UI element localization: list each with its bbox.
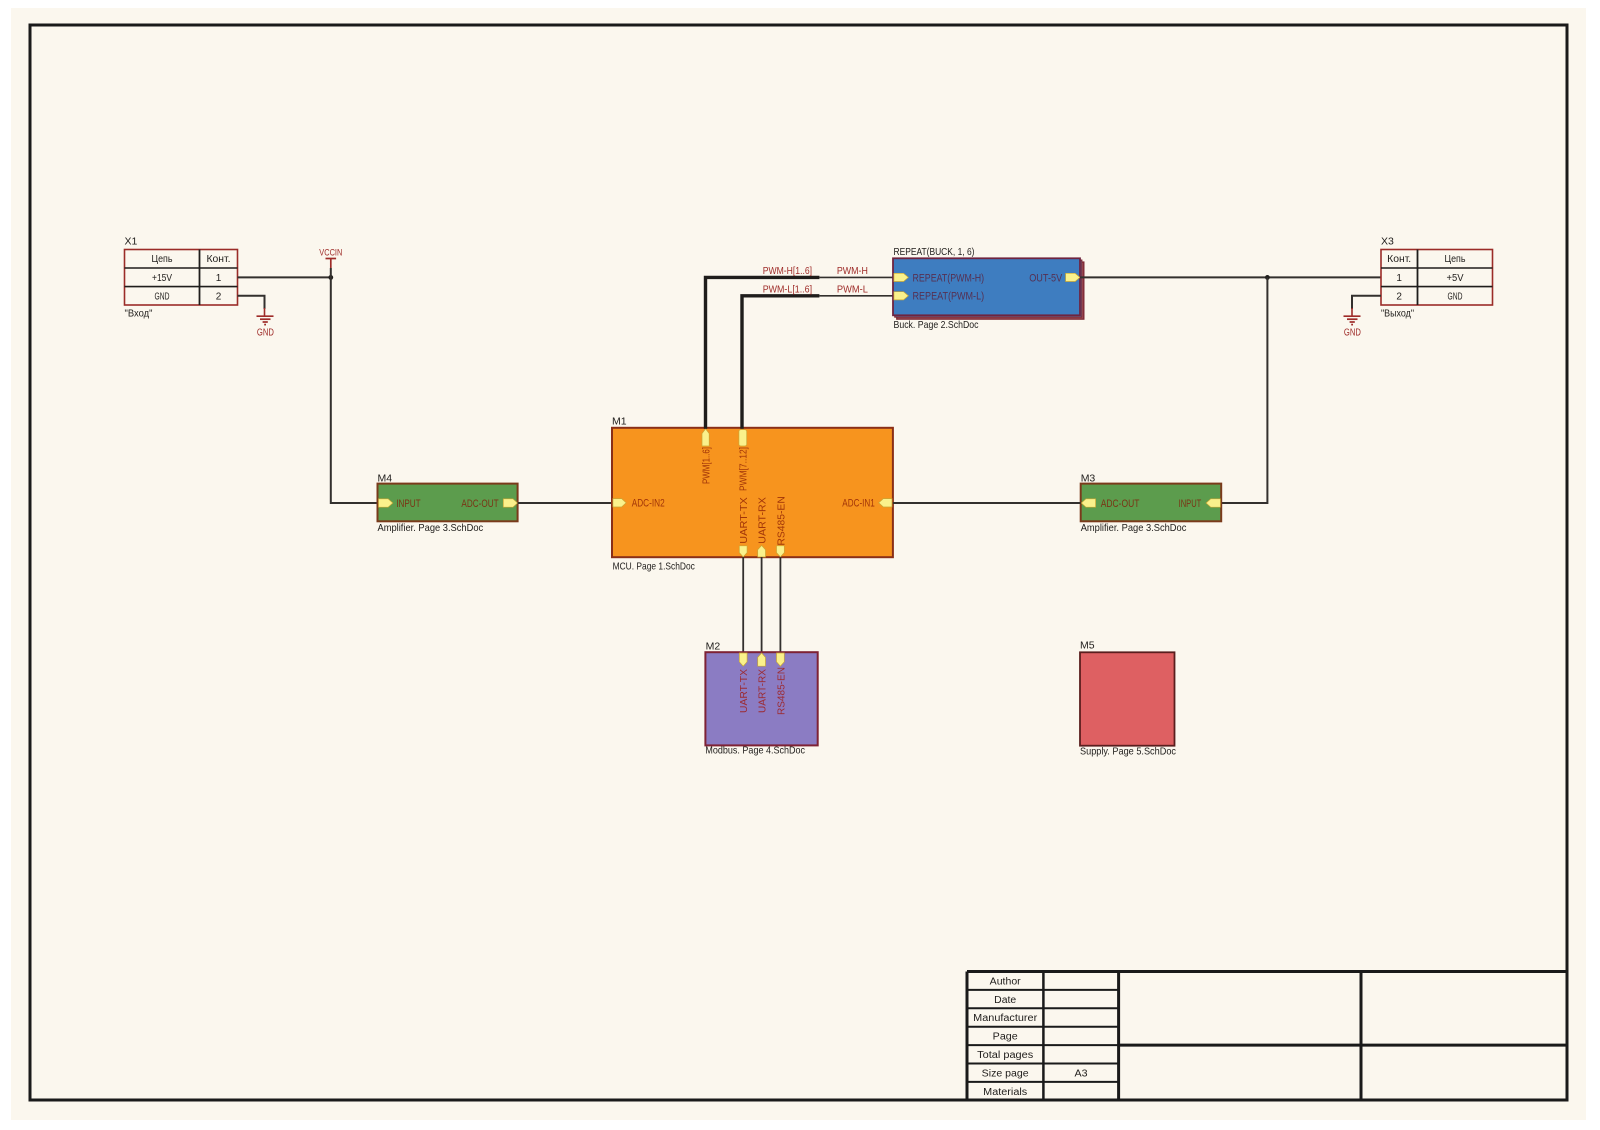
svg-text:Amplifier. Page 3.SchDoc: Amplifier. Page 3.SchDoc	[1081, 522, 1187, 534]
svg-text:PWM-L[1..6]: PWM-L[1..6]	[763, 284, 812, 296]
svg-text:RS485-EN: RS485-EN	[775, 496, 787, 545]
svg-text:X3: X3	[1381, 236, 1394, 248]
wire PWM-L to Buck	[819, 295, 893, 297]
svg-text:+5V: +5V	[1447, 273, 1464, 284]
svg-text:PWM-H: PWM-H	[837, 265, 868, 277]
port M1 UART-RX bottom	[758, 545, 766, 557]
svg-text:UART-TX: UART-TX	[738, 669, 750, 713]
svg-text:INPUT: INPUT	[396, 498, 421, 510]
port M2 UART-RX	[758, 653, 766, 666]
svg-text:PWM-H[1..6]: PWM-H[1..6]	[763, 265, 812, 277]
svg-text:PWM-L: PWM-L	[837, 284, 868, 296]
svg-text:M1: M1	[612, 415, 627, 427]
title block	[967, 972, 1567, 1101]
svg-text:+15V: +15V	[152, 273, 172, 284]
svg-text:OUT-5V: OUT-5V	[1029, 272, 1063, 284]
port Buck REPEAT(PWM-H)	[894, 273, 909, 281]
svg-text:GND: GND	[155, 291, 170, 302]
port M1 RS485-EN bottom	[777, 546, 785, 557]
svg-text:VCCIN: VCCIN	[319, 247, 342, 258]
svg-text:"Выход": "Выход"	[1381, 308, 1414, 320]
port M3 INPUT	[1206, 499, 1220, 507]
connector X3 table	[1381, 250, 1493, 306]
sheet symbol M4 Amplifier	[378, 484, 518, 522]
svg-text:Materials: Materials	[983, 1087, 1027, 1098]
port M1 PWM[1..6] top	[702, 429, 709, 446]
port Buck REPEAT(PWM-L)	[894, 292, 909, 300]
svg-text:GND: GND	[1448, 291, 1463, 302]
svg-text:A3: A3	[1075, 1068, 1088, 1079]
svg-text:GND: GND	[257, 327, 274, 339]
bus PWM-H[1..6]	[706, 277, 820, 428]
wire M1 UART-RX to M2	[761, 557, 763, 652]
svg-text:M5: M5	[1080, 640, 1095, 652]
svg-text:"Вход": "Вход"	[125, 308, 153, 320]
port M4 INPUT	[379, 499, 393, 507]
svg-text:REPEAT(BUCK, 1, 6): REPEAT(BUCK, 1, 6)	[894, 246, 975, 258]
power port VCCIN	[319, 247, 342, 268]
svg-text:X1: X1	[125, 236, 138, 248]
svg-text:M3: M3	[1081, 472, 1096, 484]
wire Buck OUT-5V to X3 pin1	[1080, 276, 1381, 278]
svg-text:REPEAT(PWM-L): REPEAT(PWM-L)	[913, 291, 985, 303]
sheet symbol Buck main	[893, 258, 1080, 315]
svg-text:UART-RX: UART-RX	[757, 497, 769, 544]
svg-text:ADC-OUT: ADC-OUT	[461, 498, 498, 510]
sheet symbol Buck (repeated) shadow	[897, 262, 1084, 319]
svg-text:ADC-IN2: ADC-IN2	[632, 498, 665, 510]
svg-text:2: 2	[1396, 291, 1402, 302]
svg-text:PWM[1..6]: PWM[1..6]	[700, 447, 712, 484]
svg-text:INPUT: INPUT	[1179, 498, 1202, 510]
ground GND right	[1344, 308, 1362, 339]
svg-text:Size page: Size page	[982, 1068, 1029, 1079]
svg-text:UART-TX: UART-TX	[738, 497, 750, 544]
port M3 ADC-OUT	[1081, 499, 1095, 507]
svg-text:MCU. Page 1.SchDoc: MCU. Page 1.SchDoc	[613, 561, 695, 573]
sheet symbol M3 Amplifier	[1081, 484, 1222, 522]
svg-text:Manufacturer: Manufacturer	[973, 1013, 1038, 1024]
svg-text:Page: Page	[993, 1032, 1018, 1043]
wire VCCIN node down to M4 INPUT	[331, 268, 378, 503]
svg-text:PWM[7..12]: PWM[7..12]	[738, 447, 750, 491]
svg-text:Цепь: Цепь	[1445, 254, 1466, 265]
svg-text:Конт.: Конт.	[1387, 254, 1411, 265]
port M2 UART-TX	[739, 653, 747, 666]
wire node down to M3 INPUT	[1221, 277, 1267, 503]
junction VCCIN node	[328, 275, 333, 280]
svg-text:UART-RX: UART-RX	[757, 669, 769, 713]
bus PWM-L[1..6]	[742, 296, 819, 429]
svg-text:Конт.: Конт.	[207, 254, 231, 265]
port M2 RS485-EN	[777, 653, 785, 666]
svg-text:Modbus. Page 4.SchDoc: Modbus. Page 4.SchDoc	[705, 745, 805, 757]
svg-text:1: 1	[216, 273, 222, 284]
svg-text:Date: Date	[994, 995, 1016, 1006]
svg-text:Total pages: Total pages	[977, 1050, 1033, 1061]
port M1 ADC-IN1	[879, 499, 892, 507]
svg-text:Buck. Page 2.SchDoc: Buck. Page 2.SchDoc	[894, 319, 979, 331]
wire X1 pin2 to ground	[238, 296, 265, 309]
wire M4 ADC-OUT to M1 ADC-IN2	[518, 502, 612, 504]
connector X1 table	[125, 250, 238, 306]
svg-text:M2: M2	[706, 641, 721, 653]
junction OUT-5V node	[1265, 275, 1270, 280]
wire M3 ADC-OUT to M1 ADC-IN1	[893, 502, 1081, 504]
sheet symbol M2 Modbus	[705, 652, 817, 745]
svg-text:RS485-EN: RS485-EN	[775, 667, 787, 715]
svg-text:M4: M4	[378, 472, 393, 484]
ground GND left	[257, 308, 275, 339]
port M4 ADC-OUT	[503, 499, 517, 507]
wire X1 pin1 to VCCIN node	[238, 276, 331, 278]
svg-text:2: 2	[216, 291, 222, 302]
svg-text:1: 1	[1396, 273, 1402, 284]
port M1 UART-TX bottom	[739, 546, 747, 557]
wire M1 UART-TX to M2	[742, 557, 744, 652]
sheet symbol M1 MCU	[612, 428, 893, 557]
wire M1 RS485-EN to M2	[779, 557, 781, 652]
port Buck OUT-5V	[1066, 273, 1080, 281]
svg-text:ADC-OUT: ADC-OUT	[1101, 498, 1140, 510]
wire PWM-H to Buck	[819, 276, 893, 278]
svg-text:Amplifier. Page 3.SchDoc: Amplifier. Page 3.SchDoc	[378, 522, 484, 534]
svg-text:Author: Author	[990, 976, 1022, 987]
wire X3 pin2 to ground	[1352, 296, 1381, 309]
svg-text:Supply. Page 5.SchDoc: Supply. Page 5.SchDoc	[1080, 745, 1176, 757]
port M1 PWM[7..12] top	[739, 430, 747, 446]
title block labels	[973, 976, 1088, 1097]
port M1 ADC-IN2	[613, 499, 626, 507]
svg-text:REPEAT(PWM-H): REPEAT(PWM-H)	[913, 272, 985, 284]
svg-text:ADC-IN1: ADC-IN1	[842, 498, 875, 510]
svg-text:GND: GND	[1344, 327, 1361, 339]
svg-text:Цепь: Цепь	[152, 254, 173, 265]
sheet symbol M5 Supply	[1080, 652, 1175, 745]
